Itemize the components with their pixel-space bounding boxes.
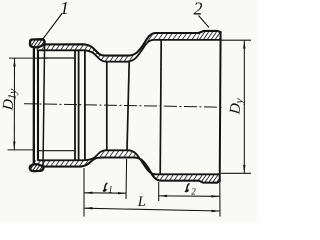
l2 arrow right (211, 195, 219, 197)
leader line for label 1 (42, 14, 62, 41)
D1u dimension line (13, 58, 15, 150)
bottom wall section (hatched band from socket mouth to right end) (30, 150, 220, 182)
socket mouth bead bottom (hatched) (30, 164, 44, 171)
l1 arrow right (118, 192, 126, 194)
Du dimension line (243, 40, 245, 173)
socket mouth inner edge (37, 50, 39, 161)
bottom inner contour (38, 150, 220, 174)
D1u arrow down (13, 142, 15, 150)
D1u bottom extension line (8, 149, 34, 151)
bottom outer contour (30, 158, 220, 183)
svg-text:2: 2 (194, 0, 203, 18)
socket mouth bead top (hatched) (30, 39, 45, 47)
l1 left extension line (shared with L) (83, 168, 85, 217)
L arrow left (84, 207, 92, 209)
L dimension line (84, 208, 220, 211)
Du arrow up (243, 40, 245, 48)
interior edge line small barrel (106, 62, 108, 151)
right end extension line down (shared l2 and L) (219, 183, 221, 217)
top outer contour (30, 31, 221, 56)
right end face (219, 31, 222, 182)
socket mouth face (33, 47, 35, 165)
socket bore line bottom (38, 150, 75, 152)
l2 label (186, 184, 189, 192)
L arrow right (212, 210, 220, 212)
svg-text:2: 2 (191, 187, 196, 197)
svg-text:L: L (137, 194, 146, 210)
Du arrow down (243, 165, 245, 173)
socket end step line 2 (78, 50, 80, 160)
Du bottom extension line (221, 172, 251, 174)
l2 arrow left (159, 195, 167, 197)
socket bead inner edge line (43, 45, 45, 167)
l1 dimension line (84, 192, 126, 194)
l2 dimension line (159, 195, 220, 197)
socket end step line 3 (84, 50, 86, 160)
svg-text:1: 1 (60, 0, 69, 18)
top wall section (hatched band from socket mouth to right end) (30, 31, 221, 62)
svg-text:D1у: D1у (0, 87, 19, 112)
socket bore line top (38, 57, 75, 59)
Du top extension line (221, 39, 251, 41)
socket end step line 1 (74, 50, 76, 160)
svg-text:Dу: Dу (227, 96, 246, 116)
cone end edge line (160, 40, 161, 174)
l1 label (104, 183, 107, 191)
l2 left extension line (158, 182, 160, 201)
top inner contour (38, 40, 221, 62)
right end bead top (hatched) (199, 31, 221, 39)
l1 arrow left (84, 192, 92, 194)
cone start edge line (127, 62, 129, 151)
centerline (axis, dash-dot) (24, 104, 222, 108)
D1u arrow up (13, 58, 15, 66)
svg-text:1: 1 (108, 184, 113, 194)
D1u top extension line (9, 57, 48, 59)
l1 right extension line (125, 159, 128, 199)
leader line for label 2 (199, 16, 210, 28)
right end bead bottom (hatched) (199, 175, 220, 183)
